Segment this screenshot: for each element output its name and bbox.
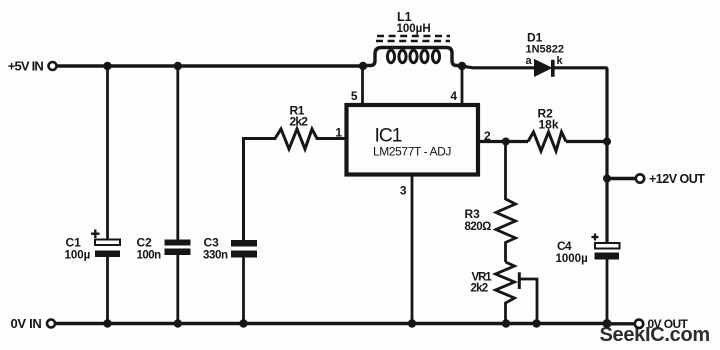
wire 0V bottom rail: [56, 322, 608, 326]
node junction +12V out: [603, 175, 611, 183]
wire pin 2 to R2: [480, 140, 528, 143]
svg-text:C4: C4: [557, 239, 572, 253]
node junction C2 bottom: [174, 319, 182, 327]
wire to +12V OUT terminal: [607, 177, 636, 180]
diode D1 1N5822: [526, 31, 565, 77]
node junction C4 bottom: [603, 319, 612, 328]
svg-text:SeekIC.com: SeekIC.com: [600, 324, 710, 346]
svg-text:100n: 100n: [137, 250, 162, 262]
svg-text:R3: R3: [465, 207, 481, 221]
svg-text:4: 4: [450, 89, 457, 103]
terminal 0V IN: [10, 316, 55, 331]
svg-text:L1: L1: [397, 10, 412, 24]
svg-text:100µH: 100µH: [397, 23, 431, 35]
wire L1 right junction to D1 anode: [462, 66, 535, 68]
terminal +12V OUT: [636, 172, 705, 186]
node junction C1 top: [103, 62, 111, 70]
terminal +5V IN: [8, 59, 57, 74]
node junction L1 right: [458, 62, 466, 70]
svg-text:820Ω: 820Ω: [465, 221, 492, 233]
svg-text:IC1: IC1: [375, 125, 402, 147]
svg-text:5: 5: [351, 89, 358, 103]
wire D1 cathode to top-right corner and down to +12V node: [555, 68, 608, 243]
capacitor C1 100u electrolytic: [65, 66, 121, 324]
node junction VR1 bottom: [502, 319, 510, 327]
node junction pin3 bottom: [408, 319, 416, 327]
svg-text:330n: 330n: [203, 250, 228, 262]
node junction pin2/R3: [502, 138, 510, 146]
resistor R2 18k: [528, 107, 566, 152]
potentiometer VR1 2k2: [471, 262, 538, 324]
svg-text:2k2: 2k2: [471, 283, 488, 295]
node junction C2 top: [174, 62, 182, 70]
capacitor C3 330n: [203, 236, 257, 324]
node junction C3 bottom: [239, 319, 247, 327]
node junction C1 bottom: [103, 319, 111, 327]
wire top rail from +5V IN to L1: [57, 64, 363, 67]
wire 0V rail to 0V OUT terminal: [607, 322, 635, 325]
svg-text:a: a: [526, 55, 533, 67]
node junction R2/+12V line: [603, 138, 611, 146]
svg-text:0V IN: 0V IN: [10, 316, 41, 331]
terminal 0V OUT: [635, 317, 689, 331]
svg-text:C1: C1: [66, 236, 82, 250]
svg-text:+12V OUT: +12V OUT: [649, 172, 705, 186]
svg-text:18k: 18k: [539, 118, 559, 132]
wire R2 to +12V line: [566, 140, 607, 143]
resistor R1 2k2 with wire down to C3: [244, 104, 345, 241]
svg-text:k: k: [557, 55, 564, 67]
wire pin 4 of IC1: [461, 66, 464, 103]
svg-text:D1: D1: [527, 31, 543, 45]
svg-text:C3: C3: [204, 236, 220, 250]
wire pin 5 of IC1: [361, 66, 364, 103]
inductor L1: [363, 10, 462, 66]
op-amp IC1 LM2577T-ADJ box: [347, 105, 479, 175]
svg-text:100µ: 100µ: [65, 250, 91, 262]
svg-text:1000µ: 1000µ: [556, 253, 588, 265]
svg-text:1N5822: 1N5822: [526, 44, 565, 56]
wire pin 3 of IC1 down to 0V rail: [411, 177, 414, 324]
node junction L1 left: [359, 62, 367, 70]
svg-text:2k2: 2k2: [290, 115, 309, 129]
svg-text:C2: C2: [137, 236, 153, 250]
capacitor C4 1000u electrolytic: [556, 234, 620, 324]
resistor R3 820ohm: [465, 142, 516, 263]
svg-text:LM2577T - ADJ: LM2577T - ADJ: [373, 145, 451, 159]
svg-text:3: 3: [400, 184, 407, 198]
svg-text:+5V IN: +5V IN: [8, 59, 44, 74]
node junction wiper bottom: [532, 319, 540, 327]
capacitor C2 100n: [137, 66, 191, 324]
